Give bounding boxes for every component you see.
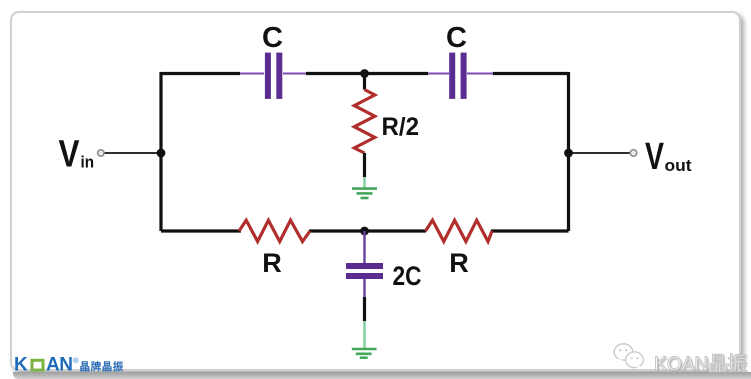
svg-text:V: V — [645, 136, 664, 178]
wire: top rail middle segment — [306, 72, 428, 75]
svg-text:2C: 2C — [393, 261, 422, 291]
wire: top rail right segment — [493, 72, 569, 75]
svg-text:R: R — [262, 248, 282, 278]
svg-text:K: K — [14, 355, 28, 374]
label Vin — [59, 134, 95, 176]
resistor R/2 — [354, 74, 375, 178]
node: Vin junction — [157, 149, 166, 158]
label 2C — [393, 261, 422, 291]
node: Vout junction — [564, 149, 573, 158]
capacitor C1 — [240, 53, 306, 99]
watermark bottom-right — [613, 343, 751, 376]
label C (left) — [262, 22, 283, 54]
wire: bottom rail middle segment — [309, 229, 426, 232]
svg-text:V: V — [59, 134, 81, 176]
svg-text:out: out — [665, 157, 693, 175]
ground (upper) — [352, 177, 377, 198]
resistor R2 (bottom-right) — [426, 220, 493, 241]
wire: top rail left segment — [161, 72, 240, 75]
label R (right) — [449, 248, 469, 278]
card bottom shadow band — [13, 372, 751, 379]
svg-text:C: C — [446, 22, 467, 54]
svg-text:C: C — [262, 22, 283, 54]
wire: left vertical branch — [159, 72, 162, 231]
capacitor C2 — [428, 53, 493, 99]
ground (lower) — [352, 321, 377, 358]
label R (left) — [262, 248, 282, 278]
node: top-mid junction — [360, 69, 369, 78]
svg-text:R/2: R/2 — [382, 113, 420, 141]
svg-text:AN: AN — [46, 355, 72, 374]
svg-text:晶牌晶振: 晶牌晶振 — [80, 360, 124, 373]
svg-text:®: ® — [73, 356, 79, 365]
svg-text:in: in — [81, 154, 95, 172]
capacitor C3 (2C) — [346, 231, 383, 321]
label C (right) — [446, 22, 467, 54]
KOAN logo bottom-left — [13, 355, 133, 374]
wire: bottom rail right segment — [491, 229, 569, 232]
terminal Vin — [98, 150, 161, 156]
node: bottom-mid junction — [360, 227, 369, 236]
label Vout — [645, 136, 692, 178]
terminal Vout — [569, 150, 637, 157]
resistor R1 (bottom-left) — [239, 220, 310, 241]
wire: right vertical branch — [567, 72, 570, 231]
wire: bottom rail left segment — [161, 229, 241, 232]
label R/2 — [382, 113, 420, 141]
svg-text:R: R — [449, 248, 469, 278]
